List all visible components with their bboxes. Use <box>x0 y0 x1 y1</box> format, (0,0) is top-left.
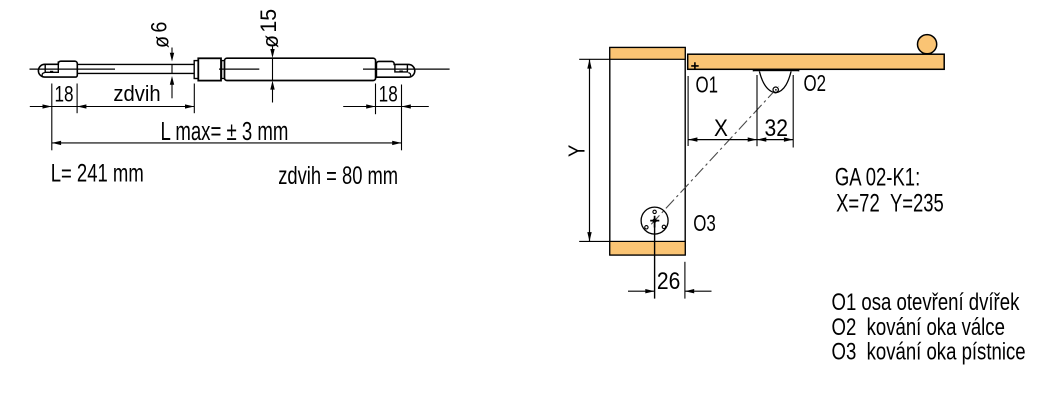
svg-text:15: 15 <box>255 9 281 33</box>
extension line x194.3 <box>193 84 195 114</box>
svg-text:32: 32 <box>764 113 787 141</box>
svg-text:zdvih = 80 mm: zdvih = 80 mm <box>278 161 398 189</box>
32 arrow right <box>784 137 793 141</box>
L max arrow left <box>52 141 61 145</box>
O3 cross <box>650 216 659 228</box>
dimension line 18 right <box>343 106 429 108</box>
dia15 arrow up <box>270 81 274 90</box>
dia15 line crossing cylinder <box>272 58 274 80</box>
O2 eye circle <box>773 87 778 92</box>
dia6 arrow up <box>170 76 174 85</box>
centerline left segment <box>30 68 116 70</box>
O3 screw hole left <box>645 226 648 229</box>
L max dimension line <box>52 142 402 144</box>
right eyelet hook curve <box>408 73 410 76</box>
arrow right at 375.5 <box>366 104 375 108</box>
L max arrow right <box>392 141 401 145</box>
left eyelet inner socket lines <box>45 61 58 72</box>
26 extension line right <box>684 262 686 299</box>
Y tick top <box>579 58 610 60</box>
dia6 dimension line lower <box>171 83 173 98</box>
svg-text:O1: O1 <box>696 72 719 98</box>
dimension line 18-zdvih left <box>30 106 195 108</box>
26 dimension line left <box>628 290 655 292</box>
svg-text:O1 osa otevření dvířek: O1 osa otevření dvířek <box>832 289 1020 316</box>
right eyelet fitting body <box>376 61 414 77</box>
left eyelet hook curve <box>42 73 44 76</box>
svg-text:zdvih: zdvih <box>113 82 160 106</box>
extension line x375.5 <box>375 84 377 115</box>
piston rod <box>78 64 195 73</box>
svg-text:O3: O3 <box>693 210 716 236</box>
svg-text:18: 18 <box>379 83 398 108</box>
extension line x793.2 <box>792 75 794 148</box>
extension line x51.8 <box>51 84 53 151</box>
Y arrow up <box>587 59 591 68</box>
svg-text:O2: O2 <box>804 70 827 96</box>
right eyelet tick <box>399 71 403 73</box>
left eyelet fitting body <box>38 61 77 77</box>
guide block <box>198 58 221 80</box>
zdvih arrow left <box>77 104 86 108</box>
bottom shelf orange <box>610 241 685 255</box>
left eyelet tick <box>50 71 53 73</box>
X dimension line <box>688 139 793 141</box>
svg-text:GA 02-K1:: GA 02-K1: <box>835 163 920 191</box>
svg-text:ø: ø <box>257 35 283 48</box>
svg-text:X=72 Y=235: X=72 Y=235 <box>836 189 944 217</box>
O3 center diamond <box>652 218 658 224</box>
extension line x757 <box>756 75 758 146</box>
knob circle <box>918 35 937 54</box>
O3 bracket circle <box>641 207 668 234</box>
dia15 dimension line upper <box>272 47 274 51</box>
X arrow left <box>688 137 697 141</box>
26 arrow left <box>685 289 694 293</box>
svg-text:26: 26 <box>657 267 680 295</box>
arrow left at 401.5 <box>402 104 411 108</box>
dia15 dimension line lower <box>272 88 274 103</box>
O1 hinge cross <box>691 62 699 69</box>
svg-text:O2 kování oka válce: O2 kování oka válce <box>832 314 1005 341</box>
O2 eye dot <box>775 89 777 91</box>
zdvih arrow right <box>185 104 194 108</box>
32 arrow left <box>757 137 766 141</box>
centerline right segment <box>363 68 450 70</box>
svg-text:L max= ± 3 mm: L max= ± 3 mm <box>161 117 289 146</box>
dia6 line crossing rod <box>171 64 173 73</box>
dia15 arrow down <box>270 49 274 58</box>
O3 screw hole right <box>662 225 665 228</box>
arrow right at 51.8 <box>43 104 52 108</box>
X extension line <box>687 76 689 146</box>
extension line x77.1 <box>76 84 78 114</box>
svg-text:Y: Y <box>564 145 589 157</box>
O2 U bracket <box>759 71 791 93</box>
centerline middle segment <box>219 68 259 70</box>
O2 bracket plate <box>754 69 799 71</box>
O3 extension line down <box>654 221 656 299</box>
svg-text:O3 kování oka pístnice: O3 kování oka pístnice <box>832 338 1026 365</box>
svg-text:X: X <box>714 114 728 142</box>
O3 screw hole top <box>653 210 656 213</box>
26 arrow right <box>645 289 654 293</box>
26 dimension line right <box>685 290 712 292</box>
dia6 arrow down <box>170 53 174 62</box>
svg-text:18: 18 <box>54 83 73 108</box>
svg-text:ø: ø <box>149 36 173 48</box>
rod washer <box>194 61 198 79</box>
extension line x401.5 <box>401 85 403 151</box>
X arrow right <box>748 137 757 141</box>
dash-dot axis line O3 to O2 <box>651 86 779 224</box>
door flap <box>688 54 945 69</box>
svg-text:6: 6 <box>147 22 171 33</box>
Y arrow down <box>587 232 591 241</box>
narrow ring <box>222 61 225 79</box>
cabinet side panel <box>610 48 685 256</box>
svg-text:L= 241 mm: L= 241 mm <box>51 159 144 187</box>
Y dimension line <box>589 59 591 241</box>
cylinder body <box>225 58 376 80</box>
Y tick bottom <box>579 240 610 242</box>
dia6 dimension line upper <box>171 48 173 55</box>
right eyelet inner socket lines <box>395 64 408 72</box>
top shelf orange <box>610 48 685 60</box>
